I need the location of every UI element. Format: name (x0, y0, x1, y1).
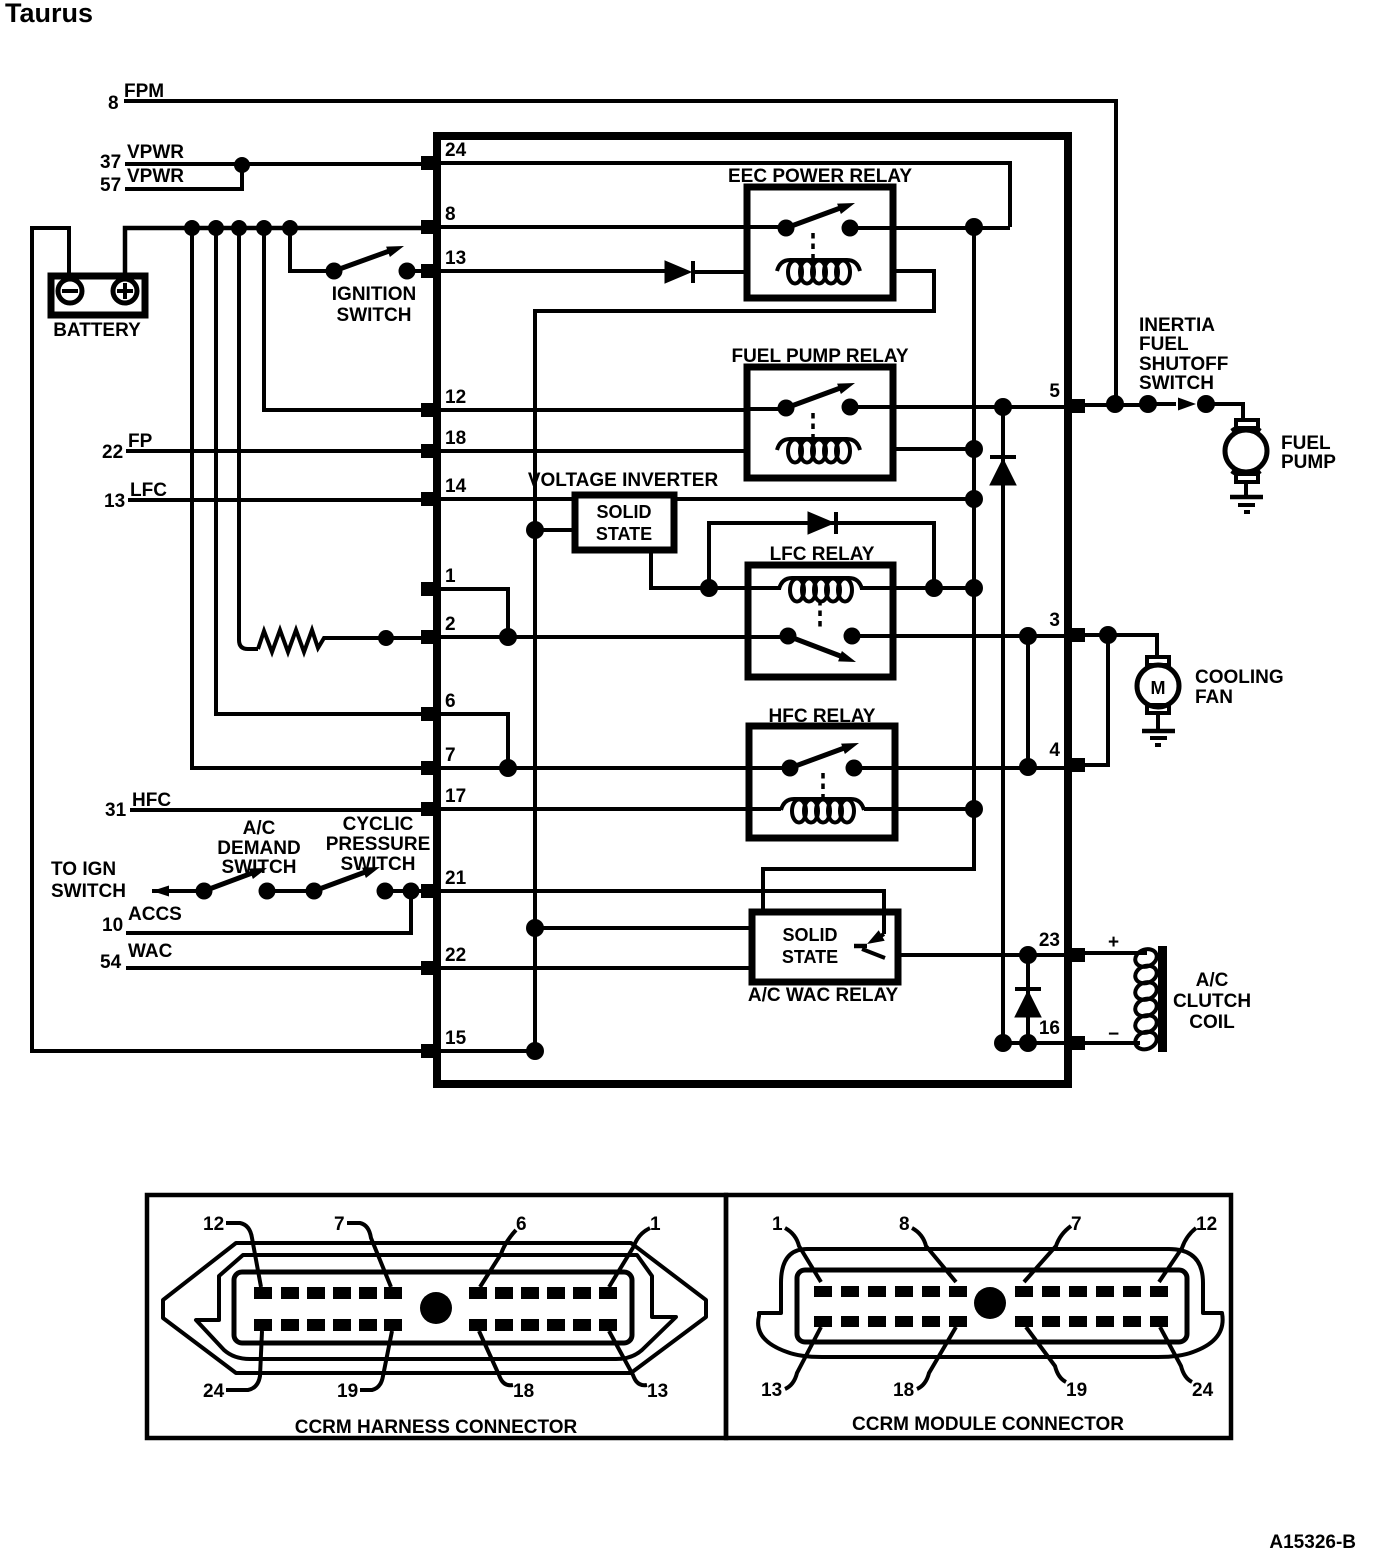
svg-text:13: 13 (647, 1381, 668, 1402)
junction B+ bus 4 (256, 220, 272, 236)
wire LFC relay output to pin 3 (857, 634, 1072, 638)
svg-text:23: 23 (1039, 930, 1060, 951)
svg-text:5: 5 (1049, 381, 1060, 402)
wire HFC coil return to A/C WAC relay supply (763, 809, 974, 912)
ignition switch arrowhead (386, 246, 404, 257)
svg-text:SWITCH: SWITCH (1139, 373, 1214, 394)
wire HFC to CCRM pin 17 (130, 808, 433, 812)
wire pin 23 internal from WAC solid state output (884, 953, 1072, 957)
svg-text:A/C WAC RELAY: A/C WAC RELAY (748, 985, 899, 1006)
svg-text:18: 18 (893, 1380, 914, 1401)
svg-text:8: 8 (445, 204, 456, 225)
module connector pin row top (814, 1286, 832, 1297)
junction pin 15 at solid-state return rail (526, 1042, 544, 1060)
svg-text:12: 12 (1196, 1214, 1217, 1235)
wire FP to CCRM pin 18 (126, 449, 433, 453)
svg-text:21: 21 (445, 868, 467, 889)
CCRM pin 17 (421, 802, 438, 816)
svg-text:1: 1 (445, 566, 456, 587)
wire dropper to pin 12 line (264, 228, 433, 410)
cyclic pressure switch arm (314, 871, 368, 891)
A/C demand switch left contact (196, 883, 213, 900)
svg-text:FP: FP (128, 431, 153, 452)
junction diode branch at pin 16 wire (994, 1034, 1012, 1052)
wire pin 2 to LFC relay common (433, 635, 781, 639)
A/C demand switch right contact (259, 883, 276, 900)
CCRM pin 23 (1067, 948, 1085, 962)
relay K4 actuator dashed link (821, 773, 825, 797)
svg-text:12: 12 (445, 387, 466, 408)
svg-text:FUEL: FUEL (1281, 433, 1331, 454)
CCRM pin 6 (421, 707, 438, 721)
junction LFC coil return (925, 579, 943, 597)
relay K1 actuator dashed link (811, 233, 815, 259)
svg-text:24: 24 (1192, 1380, 1214, 1401)
cooling fan ground (1156, 713, 1160, 731)
CCRM pin 13 (421, 264, 438, 278)
wire dropper to pin 7 line (192, 228, 433, 768)
svg-text:13: 13 (104, 491, 125, 512)
resistor (cooling fan resistor) (258, 630, 433, 652)
svg-text:22: 22 (102, 442, 123, 463)
A/C demand switch arrowhead (249, 868, 267, 879)
wire LFC to CCRM pin 14 (128, 498, 433, 502)
junction B+ bus 1 (184, 220, 200, 236)
CCRM pin 22 (421, 961, 438, 975)
svg-text:−: − (1108, 1024, 1119, 1045)
fuel pump ground (1244, 482, 1248, 497)
wire pin 4 tie up to pin 3 wire (1080, 635, 1108, 765)
relay K4 coil (781, 799, 864, 810)
wire pin 17 to HFC relay coil (433, 807, 779, 811)
wire HFC relay coil return to right rail (862, 807, 974, 811)
wire WAC to CCRM pin 22 (126, 966, 433, 970)
relay K1 armature (786, 207, 843, 228)
svg-text:A/C: A/C (243, 818, 276, 839)
svg-text:SWITCH: SWITCH (337, 305, 412, 326)
svg-text:WAC: WAC (128, 941, 173, 962)
wire pin 18 to fuel pump relay coil (433, 449, 777, 453)
junction pin 14 on right rail (965, 490, 983, 508)
CCRM module connector outer box (726, 1195, 1231, 1438)
junction voltage inverter input on return rail (526, 521, 544, 539)
svg-text:12: 12 (203, 1214, 224, 1235)
voltage inverter U1 SOLID STATE box (575, 495, 674, 550)
wire ACCS joining pin 21 wire (126, 891, 411, 933)
wire ignition switch to CCRM pin 13 (407, 269, 433, 273)
junction FP coil return on right rail (965, 440, 983, 458)
relay K1 NO contact (842, 220, 859, 237)
diode CR2 cathode bar (990, 455, 1016, 459)
svg-text:LFC: LFC (130, 480, 167, 501)
harness connector pin row top (254, 1287, 272, 1299)
junction FPM at pin 5 wire (1106, 395, 1124, 413)
battery negative terminal (58, 279, 82, 303)
CCRM pin 3 (1067, 628, 1085, 642)
wire pin 13 to diode CR1 (433, 269, 665, 273)
wire right rail from EEC output down to HFC coil (972, 227, 976, 809)
A/C WAC relay transistor symbol (882, 908, 886, 934)
wire dropper to ignition switch (290, 228, 334, 271)
svg-text:31: 31 (105, 800, 127, 821)
svg-text:4: 4 (1049, 740, 1060, 761)
cyclic pressure switch arrowhead (362, 867, 380, 878)
svg-text:1: 1 (772, 1214, 783, 1235)
wire pin 6 jog to pin 7 (433, 714, 508, 768)
svg-text:INERTIA: INERTIA (1139, 315, 1215, 336)
wire pin 14 to right rail (voltage inverter feed) (433, 497, 974, 501)
svg-text:A15326-B: A15326-B (1269, 1532, 1356, 1550)
svg-text:6: 6 (445, 691, 456, 712)
svg-text:1: 1 (650, 1214, 661, 1235)
relay K3 common contact (780, 628, 797, 645)
cooling fan motor M2 (1147, 657, 1169, 665)
wire LFC coil left lead (709, 586, 779, 590)
svg-text:SOLID: SOLID (596, 502, 651, 522)
svg-text:COOLING: COOLING (1195, 667, 1284, 688)
svg-text:CCRM HARNESS CONNECTOR: CCRM HARNESS CONNECTOR (295, 1417, 578, 1438)
svg-text:PUMP: PUMP (1281, 452, 1336, 473)
wire LFC coil return to right rail (934, 586, 974, 590)
svg-text:FPM: FPM (124, 81, 164, 102)
wire EEC relay coil return to solid state devices and pin 15 (535, 271, 934, 1051)
A/C clutch coil core bar (1158, 946, 1167, 1052)
svg-text:ACCS: ACCS (128, 904, 182, 925)
wire K2 output inside box (856, 405, 893, 409)
diode CR3 cathode bar (1015, 987, 1041, 991)
ignition switch left contact (326, 263, 343, 280)
svg-text:BATTERY: BATTERY (53, 320, 141, 341)
relay K1 box (747, 187, 893, 298)
junction B+ bus 3 (231, 220, 247, 236)
svg-text:+: + (1108, 932, 1119, 953)
svg-text:15: 15 (445, 1028, 467, 1049)
wire battery positive to B+ bus feeding CCRM pin 8 (125, 228, 433, 276)
ignition switch right contact (399, 263, 416, 280)
wire pin 3 to cooling fan (1080, 635, 1157, 657)
wire pin 12 to fuel pump relay common (433, 408, 779, 412)
wire LFC coil right lead (858, 586, 934, 590)
svg-text:VOLTAGE INVERTER: VOLTAGE INVERTER (528, 470, 719, 491)
relay K2 actuator dashed link (811, 413, 815, 437)
svg-text:CCRM MODULE CONNECTOR: CCRM MODULE CONNECTOR (852, 1414, 1124, 1435)
wire return rail to voltage inverter (535, 528, 575, 532)
wire voltage inverter output to LFC coil (651, 553, 709, 588)
wire LFC flyback diode branch over coil (709, 523, 934, 588)
svg-text:24: 24 (203, 1381, 225, 1402)
wire pin 7 to HFC relay common (433, 766, 784, 770)
harness connector polarizing circle (420, 1292, 452, 1324)
wire pin 23 to A/C clutch coil (+) (1080, 951, 1147, 955)
wire pin 8 to EEC power relay common (433, 225, 779, 229)
CCRM pin 7 (421, 761, 438, 775)
inertia fuel shutoff switch right contact (1197, 395, 1215, 413)
junction B+ bus 2 (208, 220, 224, 236)
junction LFC output to cooling fan vertical (1019, 627, 1037, 645)
relay K3 coil (779, 578, 862, 589)
svg-text:SWITCH: SWITCH (51, 881, 126, 902)
svg-text:13: 13 (445, 248, 466, 269)
svg-text:19: 19 (1066, 1380, 1087, 1401)
CCRM pin 4 (1067, 758, 1085, 772)
diode CR2 (points up) (990, 459, 1016, 485)
svg-text:Taurus: Taurus (5, 0, 93, 28)
CCRM pin 5 (1067, 399, 1085, 413)
CCRM module box (437, 136, 1068, 1084)
junction HFC coil return on right rail (965, 800, 983, 818)
wire K1 common feed inside box (747, 225, 779, 229)
svg-text:SWITCH: SWITCH (341, 854, 416, 875)
wire to A/C demand switch (152, 889, 204, 893)
junction LFC coil / flyback diode (700, 579, 718, 597)
relay K2 coil (777, 439, 860, 450)
harness connector pin row bottom (254, 1319, 272, 1331)
relay K3 actuator dashed link (818, 600, 822, 628)
relay K4 NO contact (846, 760, 863, 777)
wire fuel pump relay output to pin 5 (856, 405, 1072, 409)
junction pins 6-7 (499, 759, 517, 777)
CCRM pin 14 (421, 492, 438, 506)
wire K3 common feed inside box (748, 635, 781, 639)
A/C clutch coil windings (1133, 946, 1159, 969)
junction ACCS on pin 21 wire (403, 883, 420, 900)
wire dropper to pin 6 line (216, 228, 433, 714)
svg-text:57: 57 (100, 175, 121, 196)
harness connector pin field (234, 1272, 632, 1343)
svg-text:19: 19 (337, 1381, 358, 1402)
wire fuel pump relay flyback diode branch (1001, 407, 1005, 1043)
cyclic pressure switch left contact (306, 883, 323, 900)
wire inertia switch to fuel pump (1206, 404, 1243, 420)
wire K2 common feed inside box (747, 407, 779, 411)
svg-text:A/C: A/C (1196, 970, 1229, 991)
wire pin 22 to A/C WAC relay (433, 966, 752, 970)
svg-text:7: 7 (334, 1214, 345, 1235)
junction LFC coil return on right rail (965, 579, 983, 597)
CCRM pin 12 (421, 403, 438, 417)
svg-text:HFC: HFC (132, 790, 171, 811)
wire FPM from PCM pin 8 to inertia switch node (124, 101, 1116, 403)
diode CR3 (points up) (1015, 991, 1041, 1017)
wire HFC relay output to pin 4 (862, 766, 1072, 770)
wire VPWR 57 joining VPWR 37 (125, 164, 242, 189)
svg-text:8: 8 (899, 1214, 910, 1235)
junction pin 3 / pin 4 tie (1099, 626, 1117, 644)
junction EEC output to fuel pump relay feed (965, 218, 983, 236)
wire pin 21 to A/C WAC relay control input (433, 891, 884, 938)
CCRM pin 2 (421, 630, 438, 644)
arrowhead to ignition switch (points left) (152, 886, 169, 897)
wire K4 coil leads inside box (749, 807, 895, 811)
svg-text:13: 13 (761, 1380, 782, 1401)
module connector pin row bottom (814, 1316, 832, 1327)
relay K2 box (747, 367, 893, 478)
CCRM harness connector outer box (147, 1195, 726, 1438)
svg-text:TO IGN: TO IGN (51, 859, 116, 880)
svg-text:SHUTOFF: SHUTOFF (1139, 354, 1228, 375)
inertia fuel shutoff switch arrow (1148, 402, 1176, 406)
relay K1 common contact (778, 220, 795, 237)
svg-text:IGNITION: IGNITION (332, 284, 416, 305)
wire pin 24 to EEC switch output node (433, 163, 1010, 227)
A/C WAC relay U2 SOLID STATE box (752, 912, 898, 982)
wire pin 16 to A/C clutch coil (-) (1080, 1041, 1140, 1045)
svg-text:SOLID: SOLID (782, 925, 837, 945)
svg-text:SWITCH: SWITCH (222, 857, 297, 878)
svg-text:PRESSURE: PRESSURE (326, 834, 431, 855)
svg-text:7: 7 (1071, 1214, 1082, 1235)
fuel pump motor M1 (1236, 420, 1258, 428)
wire A/C clutch flyback diode branch (1026, 955, 1030, 1043)
wire K3 coil leads inside box (748, 586, 893, 590)
wire battery negative to ground return left rail down to pin 15 line (32, 228, 433, 1051)
svg-text:2: 2 (445, 614, 456, 635)
svg-text:STATE: STATE (782, 947, 838, 967)
wire K1 output inside box (856, 226, 893, 230)
CCRM pin 16 (1067, 1036, 1085, 1050)
junction pins 1-2 (499, 628, 517, 646)
wire return rail to WAC solid state (535, 926, 752, 930)
relay K3 box (748, 565, 893, 677)
svg-text:14: 14 (445, 476, 467, 497)
svg-text:COIL: COIL (1189, 1012, 1235, 1033)
CCRM pin 18 (421, 444, 438, 458)
junction CR3 at pin 16 wire (1019, 1034, 1037, 1052)
battery B+ box (51, 276, 145, 315)
junction WAC solid state input on return rail (526, 919, 544, 937)
svg-text:18: 18 (445, 428, 466, 449)
module connector outer shell (758, 1249, 1223, 1357)
svg-text:16: 16 (1039, 1018, 1060, 1039)
wire pin 5 to inertia switch (1080, 403, 1148, 407)
module connector polarizing circle (974, 1287, 1006, 1319)
svg-text:54: 54 (100, 952, 122, 973)
wire fuel pump relay coil return (860, 447, 974, 451)
relay K2 NO contact (842, 399, 859, 416)
inertia fuel shutoff switch left contact (1139, 395, 1157, 413)
diode CR4 (LFC coil flyback) (808, 512, 834, 534)
wire K4 output inside box (860, 766, 895, 770)
relay K3 armature (down) (788, 636, 843, 657)
svg-text:6: 6 (516, 1214, 527, 1235)
CCRM pin 24 (421, 156, 438, 170)
CCRM pin 8 (421, 220, 438, 234)
wire VPWR 37 to CCRM pin 24 (125, 162, 433, 166)
CCRM pin 15 (421, 1044, 438, 1058)
wire pin 1 jog to pin 2 (433, 589, 508, 637)
relay K1 coil (777, 260, 860, 271)
svg-text:10: 10 (102, 915, 123, 936)
battery positive terminal (113, 279, 137, 303)
relay K4 armature (790, 747, 847, 768)
relay K4 common contact (782, 760, 799, 777)
CCRM pin 21 (421, 884, 438, 898)
svg-text:3: 3 (1049, 610, 1060, 631)
wire diode CR1 to EEC relay coil (693, 270, 777, 274)
junction B+ bus 5 (282, 220, 298, 236)
module connector pin field (797, 1270, 1187, 1342)
junction fuel pump diode at pin 5 wire (994, 398, 1012, 416)
svg-text:STATE: STATE (596, 524, 652, 544)
harness connector inner shell (196, 1255, 676, 1359)
wire pin 15 ground into module (433, 1049, 535, 1053)
wire dropper to resistor (239, 228, 258, 649)
svg-text:M: M (1151, 678, 1166, 698)
wire K3 output inside box (858, 634, 893, 638)
cyclic pressure switch right contact (377, 883, 394, 900)
wire EEC power relay output (856, 226, 1010, 230)
relay K3 NO contact (844, 628, 861, 645)
svg-text:DEMAND: DEMAND (217, 838, 300, 859)
wire K4 common feed inside box (749, 766, 784, 770)
A/C demand switch arm (204, 872, 255, 891)
relay K4 box (749, 726, 895, 838)
svg-text:37: 37 (100, 152, 121, 173)
harness connector outer shell (163, 1243, 706, 1373)
wire cyclic switch to CCRM pin 21 (385, 889, 433, 893)
junction HFC output at pin 4 vertical (1019, 758, 1037, 776)
svg-text:7: 7 (445, 745, 456, 766)
svg-text:22: 22 (445, 945, 466, 966)
junction VPWR (234, 157, 250, 173)
relay K2 common contact (778, 400, 795, 417)
svg-text:CLUTCH: CLUTCH (1173, 991, 1251, 1012)
junction at pin 23 wire (1019, 946, 1037, 964)
svg-text:VPWR: VPWR (127, 166, 184, 187)
svg-text:8: 8 (108, 93, 119, 114)
wire demand switch to cyclic pressure switch (267, 889, 314, 893)
ignition switch arm (334, 250, 392, 271)
svg-text:VPWR: VPWR (127, 142, 184, 163)
svg-text:17: 17 (445, 786, 466, 807)
svg-text:18: 18 (513, 1381, 534, 1402)
svg-text:24: 24 (445, 140, 467, 161)
svg-text:CYCLIC: CYCLIC (343, 814, 414, 835)
wire vertical joining pin 3 and pin 4 lines (1026, 636, 1030, 767)
junction resistor to pin 2 wire (378, 630, 394, 646)
svg-text:FUEL: FUEL (1139, 334, 1189, 355)
diode CR1 (EEC coil feed) (665, 261, 691, 283)
wire pin 16 internal (1003, 1041, 1072, 1045)
relay K2 armature (786, 387, 843, 408)
CCRM pin 1 (421, 582, 438, 596)
svg-text:FAN: FAN (1195, 687, 1233, 708)
